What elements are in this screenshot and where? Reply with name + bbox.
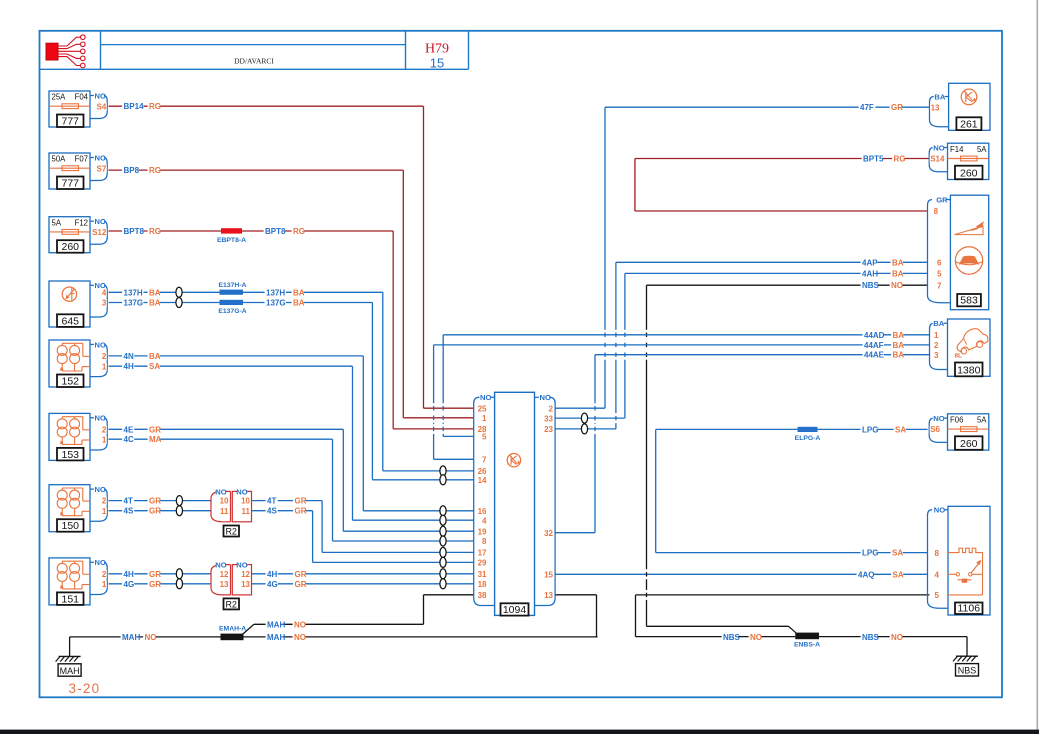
svg-text:137G: 137G [124,299,144,308]
riser 4AH vertical [624,273,626,329]
svg-text:50A: 50A [52,155,67,164]
svg-text:SA: SA [892,549,903,558]
svg-text:BA: BA [892,258,904,267]
wire 4AH-BA: 1094 pin 33 to 583 pin 5 [555,417,625,419]
svg-text:SA: SA [895,425,906,434]
label 1094 [501,603,529,615]
svg-text:2: 2 [102,352,107,361]
svg-text:7: 7 [937,281,942,290]
left connector bracket of 1094 [474,397,480,403]
svg-text:EBPT8-A: EBPT8-A [217,237,246,244]
svg-text:LPG: LPG [862,425,878,434]
svg-text:18: 18 [478,580,487,589]
twisted pair marker [176,569,182,579]
fuse F12 (5A) box 260 [49,217,90,253]
connector of 153 [90,417,94,419]
svg-text:4: 4 [482,516,487,525]
svg-text:2: 2 [102,570,107,579]
svg-text:3: 3 [102,299,107,308]
svg-text:GR: GR [149,570,161,579]
relay contact [948,573,956,575]
svg-text:10: 10 [241,497,250,506]
svg-text:6: 6 [937,258,942,267]
svg-text:RG: RG [149,227,161,236]
lamp unit 150 [49,485,90,532]
wire 4AH-BA horizontal [625,272,928,274]
wire 44AD-BA: 1094 pin 5 to 1380 pin 1 [443,334,929,336]
wire 4AQ-SA: 1094 pin 15 to 1106 pin 4 [555,573,927,575]
wire NBS-NO: 1106 pin 5 to ground NBS [636,594,930,596]
svg-text:137H: 137H [124,288,143,297]
svg-text:13: 13 [220,580,229,589]
svg-text:47F: 47F [860,103,874,112]
wire 4H-SA: 152 pin1 to 1094 pin 4 [109,365,353,367]
svg-text:SA: SA [149,362,160,371]
unit 583 (steering column) [950,195,988,310]
svg-text:LPG: LPG [862,549,878,558]
twisted pair marker [176,287,182,297]
wire 4G-GR: 151 pin1 via R2 to 1094 pin 18 [109,583,212,585]
svg-text:NBS: NBS [862,281,880,290]
relay arrow [971,563,979,573]
svg-text:S6: S6 [930,425,940,434]
wire BP14-RG: fuse F04 S4 to 1094 pin 25 [109,105,424,107]
svg-text:S4: S4 [97,102,107,111]
svg-text:151: 151 [61,593,79,605]
svg-text:10: 10 [220,497,229,506]
svg-text:BPT8: BPT8 [124,227,145,236]
label R2 [224,598,240,609]
svg-text:RG: RG [293,227,305,236]
control unit 1094 box [495,392,535,615]
svg-text:GR: GR [936,196,948,205]
connector of 1106 [944,509,948,511]
splice E137G-A [220,300,244,305]
svg-text:BA: BA [933,319,944,328]
svg-text:E137H-A: E137H-A [219,282,247,289]
svg-text:13: 13 [931,103,940,112]
unit 1106 (LPG relay) [948,506,990,615]
svg-text:NO: NO [95,414,106,423]
svg-text:R2: R2 [225,527,237,537]
riser 44AF vertical [433,345,435,403]
svg-text:NO: NO [750,633,762,642]
fuse F06 (5A) box 260 [948,414,989,450]
svg-text:7: 7 [482,456,487,465]
wire 47F-GR: 1094 pin 2 to 261 pin 13 [555,407,605,409]
svg-text:1: 1 [102,362,107,371]
connector of 583 [946,199,950,201]
svg-text:44AE: 44AE [864,351,885,360]
svg-text:16: 16 [478,507,487,516]
svg-text:NO: NO [95,91,106,100]
svg-text:31: 31 [478,570,487,579]
wire 44AE-BA riser [555,532,595,534]
svg-text:NO: NO [95,153,106,162]
svg-text:260: 260 [61,241,79,253]
inline connector R2 [211,565,231,595]
svg-text:R2: R2 [225,599,237,609]
svg-text:17: 17 [478,549,487,558]
fuse F04 (25A) box 777 [49,91,90,127]
svg-text:152: 152 [61,375,79,387]
svg-text:44AD: 44AD [864,331,885,340]
svg-text:BA: BA [893,351,905,360]
wire 4H-GR: 151 pin2 via R2 to 1094 pin 31 [109,573,212,575]
bottom taskbar edge [0,730,1039,734]
svg-text:4H: 4H [124,362,134,371]
svg-text:BA: BA [893,331,905,340]
wire MAH-NO branch to 1094 pin 13 [244,636,598,638]
svg-text:BA: BA [893,341,905,350]
svg-text:F12: F12 [75,218,88,227]
svg-text:4AH: 4AH [862,269,878,278]
svg-text:MAH: MAH [122,633,140,642]
svg-text:4N: 4N [124,352,134,361]
svg-text:4: 4 [935,571,940,580]
connector S7 of fuse F07 [90,157,94,159]
svg-text:8L: 8L [955,353,963,360]
K symbol in 1094 [507,454,520,467]
svg-text:4AQ: 4AQ [858,570,874,579]
ground NBS [956,655,978,657]
svg-text:NO: NO [933,414,944,423]
svg-text:H79: H79 [425,42,449,57]
svg-text:BA: BA [892,269,904,278]
svg-text:MAH: MAH [267,620,285,629]
svg-text:NO: NO [891,633,903,642]
svg-text:1380: 1380 [957,365,981,377]
svg-text:38: 38 [478,591,487,600]
wire 4C-MA: 153 pin1 to 1094 pin 8 [109,438,333,440]
svg-text:4G: 4G [124,580,135,589]
svg-text:5: 5 [937,270,942,279]
riser 47F vertical [604,107,606,330]
svg-text:4G: 4G [267,580,278,589]
twisted pair marker [581,413,587,423]
svg-text:BA: BA [293,299,305,308]
fuse F07 (50A) box 777 [49,153,90,189]
svg-text:NO: NO [294,620,306,629]
svg-text:4: 4 [102,288,107,297]
svg-text:MA: MA [149,435,162,444]
svg-text:12: 12 [220,570,229,579]
svg-text:777: 777 [61,115,79,127]
lamp unit 151 [49,558,90,605]
wire MAH-NO: ground MAH to splice EMAH-A [69,637,71,657]
publisher logo [46,43,58,60]
unit 261 (clock/K) [949,83,990,130]
wire BP8-RG: fuse F07 S7 to 1094 pin 1 [109,169,404,171]
wire 4AP-BA: 1094 pin 23 to 583 pin 6 [555,428,616,430]
svg-text:NO: NO [540,393,551,402]
svg-text:BA: BA [934,92,945,101]
svg-text:EMAH-A: EMAH-A [219,626,246,633]
wire 4T-GR: 150 pin2 via R2 to 1094 pin 17 [109,500,212,502]
svg-text:NO: NO [95,340,106,349]
svg-text:1: 1 [102,436,107,445]
car icon [954,326,991,355]
svg-text:RG: RG [894,155,906,164]
svg-text:F14: F14 [950,145,964,154]
svg-text:S14: S14 [930,155,945,164]
riser 4AP vertical [615,262,617,330]
connector of 150 [90,488,94,490]
svg-text:GR: GR [295,570,307,579]
svg-text:NO: NO [95,217,106,226]
svg-text:4H: 4H [267,570,277,579]
svg-text:DD/AVARCI: DD/AVARCI [234,57,274,66]
riser 44AE vertical [594,355,596,404]
svg-text:NO: NO [145,633,157,642]
splice ELPG-A [798,427,818,432]
svg-text:NO: NO [934,506,945,515]
connector of 1380 [944,322,948,324]
splice EBPT8-A [221,228,242,233]
svg-text:BA: BA [149,288,161,297]
svg-text:1: 1 [102,580,107,589]
connector S6 [944,417,948,419]
splice EMAH-A [221,634,244,641]
svg-text:NO: NO [933,143,944,152]
svg-text:S12: S12 [92,228,107,237]
svg-text:NO: NO [480,393,491,402]
svg-text:GR: GR [295,497,307,506]
svg-text:33: 33 [544,414,553,423]
svg-text:583: 583 [960,295,978,307]
svg-text:1094: 1094 [503,604,527,616]
wire MAH-NO branch to 1094 pin 38 [242,624,254,635]
svg-text:F07: F07 [75,155,88,164]
svg-text:1: 1 [482,414,487,423]
connector of 151 [90,561,94,563]
svg-text:11: 11 [220,507,229,516]
svg-text:150: 150 [61,520,79,532]
svg-text:4T: 4T [124,497,133,506]
svg-text:1106: 1106 [957,602,980,614]
connector of 152 [90,343,94,345]
svg-text:NO: NO [95,485,106,494]
svg-text:BPT8: BPT8 [265,227,286,236]
svg-text:32: 32 [544,529,553,538]
wire 4S-GR: 150 pin1 via R2 to 1094 pin 29 [109,510,212,512]
pedal icon [955,226,984,234]
svg-text:26: 26 [478,467,487,476]
svg-text:29: 29 [478,559,487,568]
svg-text:NBS: NBS [862,633,880,642]
svg-text:RG: RG [149,102,161,111]
svg-text:13: 13 [544,591,553,600]
svg-text:F04: F04 [75,93,89,102]
wire NBS-NO: 583 pin 7 to splice ENBS-A [647,284,928,286]
connector S14 [944,147,948,149]
wire BPT5-RG: fuse F14 S14 to 583 pin 8 [635,158,930,160]
svg-text:137G: 137G [266,299,286,308]
svg-text:4T: 4T [267,497,276,506]
relay internal wiring [982,553,984,595]
svg-text:2: 2 [934,341,939,350]
svg-text:261: 261 [960,119,978,131]
svg-text:11: 11 [242,507,251,516]
svg-text:4E: 4E [124,425,134,434]
svg-text:NO: NO [236,487,247,496]
svg-text:2: 2 [102,497,107,506]
wire 137G-BA: 645 pin3 to 1094 pin 14 [109,302,373,304]
svg-text:260: 260 [960,168,978,180]
svg-text:25A: 25A [52,93,67,102]
svg-text:1: 1 [102,507,107,516]
wire 47F-GR horizontal [605,106,930,108]
svg-text:NO: NO [215,561,226,570]
svg-text:137H: 137H [266,288,285,297]
svg-text:ENBS-A: ENBS-A [794,641,820,648]
right connector bracket of 1094 [549,397,555,403]
svg-text:260: 260 [960,438,978,450]
svg-text:153: 153 [61,449,79,461]
svg-text:15: 15 [430,56,444,71]
svg-text:1: 1 [934,331,939,340]
connector of 645 [90,284,94,286]
svg-text:23: 23 [544,425,553,434]
svg-text:8: 8 [935,549,940,558]
svg-text:BA: BA [149,352,161,361]
svg-text:2: 2 [549,404,554,413]
connector 13 of 261 [945,96,949,98]
twisted pair markers at 1094 [440,466,446,476]
svg-text:NO: NO [891,281,903,290]
svg-text:4H: 4H [124,570,134,579]
svg-text:19: 19 [478,527,487,536]
page right edge line [1036,0,1038,734]
svg-text:GR: GR [149,580,161,589]
svg-text:RG: RG [149,166,161,175]
twisted pair marker [176,496,182,506]
svg-text:NO: NO [215,487,226,496]
svg-text:GR: GR [149,497,161,506]
ground MAH [59,655,81,657]
wire LPG-SA: fuse F06 S6 to 1106 pin 8 [656,428,928,430]
svg-text:8: 8 [482,537,487,546]
wire 137H-BA: 645 pin4 to 1094 pin 26 [109,291,383,293]
inline connector R2 [211,491,231,521]
svg-text:F06: F06 [950,415,963,424]
svg-text:2: 2 [102,425,107,434]
splice E137H-A [220,290,244,295]
connector S4 of fuse F04 [90,95,94,97]
lamp unit 152 [49,340,90,387]
svg-text:8: 8 [934,207,939,216]
title block cells [100,31,102,70]
svg-text:13: 13 [241,580,250,589]
wire 44AF-BA: 1094 pin 7 to 1380 pin 2 [434,344,930,346]
svg-text:14: 14 [478,476,487,485]
svg-text:E137G-A: E137G-A [218,308,246,315]
sensor unit 645 [49,281,90,327]
svg-text:4C: 4C [124,435,134,444]
svg-text:ELPG-A: ELPG-A [795,435,821,442]
svg-text:4S: 4S [124,507,134,516]
wire MAH riser pin 13 [555,594,596,596]
svg-text:BPT5: BPT5 [863,155,884,164]
svg-text:4S: 4S [267,507,277,516]
wire 4AP-BA horizontal [616,261,928,263]
svg-text:NBS: NBS [958,666,977,676]
svg-text:BA: BA [293,288,305,297]
fuse F14 (5A) box 260 [948,143,989,179]
svg-text:S7: S7 [97,164,107,173]
svg-text:BP8: BP8 [124,166,140,175]
svg-text:GR: GR [295,507,307,516]
splice ENBS-A [795,633,819,640]
wire BPT8-RG: fuse F12 S12 to 1094 pin 28 [109,230,394,232]
svg-text:5A: 5A [977,415,987,424]
svg-text:25: 25 [478,404,487,413]
steering wheel icon [955,247,982,274]
svg-text:15: 15 [544,571,553,580]
lamp unit 153 [49,413,90,460]
svg-text:GR: GR [149,507,161,516]
svg-text:BA: BA [149,299,161,308]
svg-text:5A: 5A [52,218,62,227]
svg-text:NBS: NBS [723,633,741,642]
svg-text:4AP: 4AP [862,258,878,267]
wire 44AE-BA: 1094 pin 32 to 1380 pin 3 [595,354,930,356]
svg-text:BP14: BP14 [124,102,145,111]
svg-text:SA: SA [893,570,904,579]
wire 4E-GR: 153 pin2 to 1094 pin 19 [109,428,344,430]
svg-text:5: 5 [935,591,940,600]
svg-text:GR: GR [295,580,307,589]
svg-text:GR: GR [149,425,161,434]
svg-text:5A: 5A [977,145,987,154]
svg-text:3-20: 3-20 [69,681,101,696]
svg-text:5: 5 [482,433,487,442]
svg-text:12: 12 [241,570,250,579]
svg-text:MAH: MAH [60,666,80,676]
svg-text:645: 645 [61,315,79,327]
label R2 [224,526,240,537]
riser 44AD vertical [442,335,444,403]
svg-text:GR: GR [891,103,903,112]
svg-text:NO: NO [95,558,106,567]
unit 1380 (car/UCH) [948,319,991,376]
svg-text:3: 3 [934,351,939,360]
wire 4N-BA: 152 pin2 to 1094 pin 16 [109,355,364,357]
connector S12 of fuse F12 [90,220,94,222]
svg-text:44AF: 44AF [864,341,884,350]
relay coil [948,548,983,552]
svg-text:NO: NO [294,633,306,642]
svg-text:MAH: MAH [267,633,285,642]
svg-text:777: 777 [61,177,79,189]
svg-text:NO: NO [236,561,247,570]
